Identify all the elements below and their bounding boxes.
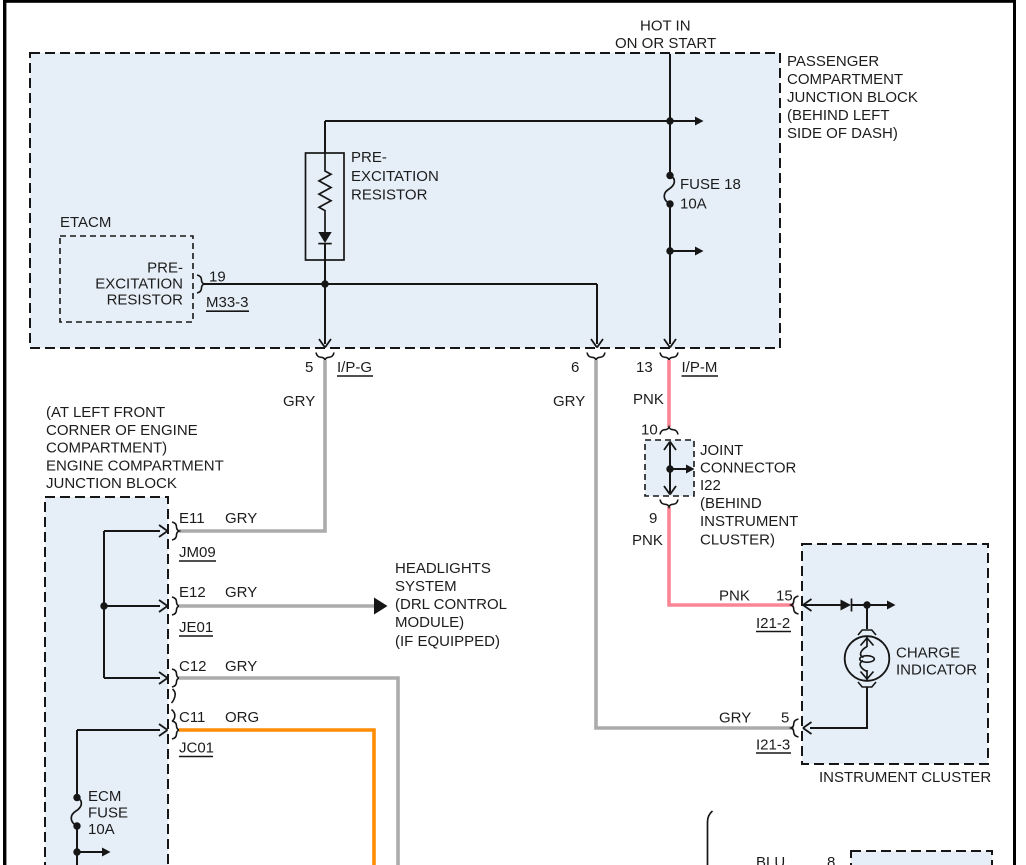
connector bracket ETACM pin 19	[197, 275, 204, 293]
svg-text:PNK: PNK	[719, 588, 750, 605]
svg-text:13: 13	[636, 359, 653, 376]
wire below ECM fuse	[76, 826, 78, 865]
wire arrow stub right of junction	[670, 120, 696, 122]
wire PNK conn13 to joint connector	[667, 360, 671, 427]
wire down to pre-excitation resistor	[324, 121, 326, 153]
connector I/P-G label	[337, 359, 373, 376]
cluster wire pin15 with arrow	[803, 604, 841, 606]
joint connector internal bus	[669, 442, 671, 494]
svg-text:C11: C11	[179, 709, 205, 726]
wire down to charge indicator	[866, 605, 868, 629]
svg-text:INSTRUMENT: INSTRUMENT	[700, 513, 798, 530]
svg-text:5: 5	[781, 710, 789, 727]
svg-text:I21-2: I21-2	[756, 615, 790, 632]
svg-text:CORNER OF ENGINE: CORNER OF ENGINE	[46, 422, 198, 439]
svg-text:CLUSTER): CLUSTER)	[700, 532, 775, 549]
wire GRY conn5 to E11	[179, 360, 325, 531]
passenger compartment junction block label	[787, 53, 918, 142]
pre-excitation resistor label	[351, 149, 439, 204]
node HOT IN label	[615, 18, 716, 53]
fuse 18 element	[666, 172, 673, 179]
svg-text:E11: E11	[179, 510, 205, 527]
svg-text:ON OR START: ON OR START	[615, 35, 716, 52]
wire GRY E12 to headlights	[179, 604, 374, 608]
svg-text:5: 5	[305, 359, 313, 376]
svg-text:10A: 10A	[88, 821, 115, 838]
svg-text:ORG: ORG	[225, 709, 259, 726]
svg-text:COMPARTMENT: COMPARTMENT	[787, 71, 903, 88]
svg-text:M33-3: M33-3	[206, 294, 249, 311]
svg-text:JOINT: JOINT	[700, 442, 743, 459]
arrow to headlights system	[374, 598, 388, 615]
svg-text:PNK: PNK	[632, 532, 663, 549]
wire ETACM output horizontal	[204, 283, 597, 285]
svg-text:(AT LEFT FRONT: (AT LEFT FRONT	[46, 404, 165, 421]
connector pin5 bracket I21-3	[791, 719, 799, 737]
svg-text:9: 9	[649, 510, 657, 527]
svg-text:ENGINE COMPARTMENT: ENGINE COMPARTMENT	[46, 458, 224, 475]
wire GRY conn6 to I21-3	[596, 360, 794, 728]
wire arrow stub at 251	[670, 250, 696, 252]
wire ORG C11 down	[179, 730, 374, 865]
resistor R pre-excitation outline box	[306, 153, 345, 260]
bottom generator box (partial)	[851, 851, 992, 865]
connector C11 bracket	[172, 710, 180, 740]
svg-text:EXCITATION: EXCITATION	[95, 276, 183, 293]
headlights system label	[395, 560, 507, 650]
wire fuse to branch node	[669, 204, 671, 344]
svg-text:BLU: BLU	[756, 854, 785, 865]
junction dot bus E12	[100, 602, 107, 609]
ETACM pre-excitation resistor label	[95, 260, 183, 309]
junction dot below ECM fuse	[73, 848, 80, 855]
connector C12 bracket	[172, 669, 180, 703]
wire C11 branch to ECM fuse	[76, 730, 78, 797]
wire to C12 with arrow	[104, 677, 160, 679]
ECM fuse element	[73, 794, 80, 801]
svg-text:COMPARTMENT): COMPARTMENT)	[46, 440, 167, 457]
connector JC01 label	[179, 740, 214, 757]
svg-text:PASSENGER: PASSENGER	[787, 53, 879, 70]
svg-text:10A: 10A	[680, 196, 707, 213]
diode D in resistor branch	[318, 232, 331, 243]
ETACM module box	[60, 236, 193, 322]
svg-text:GRY: GRY	[283, 393, 315, 410]
diode D cluster	[841, 600, 852, 611]
svg-text:SYSTEM: SYSTEM	[395, 578, 457, 595]
svg-text:INDICATOR: INDICATOR	[896, 662, 977, 679]
svg-text:CONNECTOR: CONNECTOR	[700, 460, 797, 477]
junction dot top bus	[666, 117, 673, 124]
connector pin15 bracket	[791, 596, 799, 614]
svg-text:E12: E12	[179, 584, 206, 601]
connector E12 bracket	[172, 597, 179, 615]
wire to E11 with arrow	[104, 530, 160, 532]
svg-text:RESISTOR: RESISTOR	[107, 292, 184, 309]
lamp top terminal bracket	[858, 630, 876, 635]
svg-text:JUNCTION BLOCK: JUNCTION BLOCK	[46, 475, 177, 492]
svg-text:I21-3: I21-3	[756, 737, 790, 754]
engine compartment junction block label	[46, 404, 224, 492]
connector 6 bracket	[587, 353, 605, 361]
connector E11 bracket	[172, 522, 179, 540]
svg-text:JE01: JE01	[179, 619, 213, 636]
connector JE01 label	[179, 619, 213, 636]
svg-text:(BEHIND LEFT: (BEHIND LEFT	[787, 107, 890, 124]
svg-text:GRY: GRY	[225, 510, 257, 527]
joint connector junction dot	[666, 465, 673, 472]
svg-text:HEADLIGHTS: HEADLIGHTS	[395, 560, 491, 577]
svg-text:C12: C12	[179, 658, 207, 675]
svg-text:8: 8	[827, 854, 835, 865]
arrow into connector 13	[664, 339, 676, 348]
svg-text:RESISTOR: RESISTOR	[351, 187, 428, 204]
svg-text:(BEHIND: (BEHIND	[700, 495, 762, 512]
connector I21-2 label	[756, 615, 791, 632]
fuse 18 label	[680, 176, 741, 213]
wire arrow stub at ECM node	[77, 851, 103, 853]
svg-text:GRY: GRY	[553, 393, 585, 410]
connector M33-3 label	[206, 294, 249, 311]
svg-text:SIDE OF DASH): SIDE OF DASH)	[787, 125, 898, 142]
wire PNK pin9 to I21-2	[669, 507, 794, 605]
svg-text:19: 19	[209, 269, 226, 286]
connector pin10 bracket	[660, 427, 678, 435]
lamp bottom terminal bracket	[858, 682, 876, 687]
junction dot cluster	[863, 601, 870, 608]
svg-text:I/P-M: I/P-M	[682, 359, 718, 376]
charge indicator lamp L1	[845, 636, 890, 681]
svg-text:PNK: PNK	[633, 391, 664, 408]
page frame right	[1013, 0, 1016, 865]
svg-text:6: 6	[571, 359, 579, 376]
svg-text:15: 15	[776, 588, 793, 605]
svg-text:(DRL CONTROL: (DRL CONTROL	[395, 596, 507, 613]
page frame left	[3, 0, 6, 865]
instrument cluster box	[802, 544, 988, 764]
svg-text:FUSE: FUSE	[88, 805, 128, 822]
svg-text:10: 10	[641, 422, 658, 439]
svg-text:CHARGE: CHARGE	[896, 645, 960, 662]
wire to E12 with arrow	[104, 605, 160, 607]
svg-text:GRY: GRY	[225, 658, 257, 675]
junction dot below fuse	[666, 247, 673, 254]
svg-text:GRY: GRY	[225, 584, 257, 601]
connector bracket lower section	[708, 811, 713, 865]
connector I21-3 label	[756, 737, 791, 754]
svg-text:I22: I22	[700, 477, 721, 494]
svg-text:ETACM: ETACM	[60, 214, 111, 231]
svg-text:PRE-: PRE-	[351, 149, 387, 166]
joint connector I22 box	[645, 440, 694, 496]
svg-text:INSTRUMENT CLUSTER: INSTRUMENT CLUSTER	[819, 769, 991, 786]
connector JM09 label	[179, 544, 216, 561]
svg-text:I/P-G: I/P-G	[337, 359, 372, 376]
fuse 18 wire upper	[669, 121, 671, 175]
svg-text:HOT IN: HOT IN	[640, 18, 691, 35]
wire down to connector 6	[596, 284, 598, 344]
svg-text:MODULE): MODULE)	[395, 614, 464, 631]
svg-text:GRY: GRY	[719, 710, 751, 727]
wire bus horizontal top	[325, 120, 670, 122]
svg-text:JM09: JM09	[179, 544, 216, 561]
resistor element zigzag	[319, 153, 331, 232]
svg-text:PRE-: PRE-	[147, 260, 183, 277]
ECM fuse label	[88, 788, 128, 838]
engine compartment junction block box	[45, 497, 168, 865]
arrow into connector 5	[319, 339, 331, 348]
svg-text:FUSE 18: FUSE 18	[680, 176, 741, 193]
joint connector I22 label	[700, 442, 798, 549]
wire hot feed vertical into box	[669, 54, 671, 121]
charge indicator label	[896, 645, 977, 679]
joint connector arrow stub	[670, 468, 687, 470]
svg-text:ECM: ECM	[88, 788, 121, 805]
passenger compartment junction block box	[30, 53, 780, 348]
svg-text:JC01: JC01	[179, 740, 214, 757]
cluster wire diode to arrow stub	[852, 604, 889, 606]
svg-text:EXCITATION: EXCITATION	[351, 168, 439, 185]
wire GRY C12 down	[179, 678, 398, 865]
connector 13 I/P-M bracket	[660, 353, 678, 361]
page frame top	[3, 0, 1016, 3]
svg-text:(IF EQUIPPED): (IF EQUIPPED)	[395, 633, 500, 650]
arrow into connector 6	[591, 339, 603, 348]
svg-text:JUNCTION BLOCK: JUNCTION BLOCK	[787, 89, 918, 106]
cluster wire lamp to pin5	[810, 687, 867, 728]
engine block bus vertical	[103, 531, 105, 678]
connector pin9 bracket	[660, 500, 678, 508]
connector 5 I/P-G bracket	[316, 353, 334, 361]
wire to C11 with arrow	[77, 729, 160, 731]
connector I/P-M label	[682, 359, 719, 376]
junction dot at resistor/ETACM node	[321, 280, 328, 287]
wire resistor to node row	[324, 244, 326, 344]
